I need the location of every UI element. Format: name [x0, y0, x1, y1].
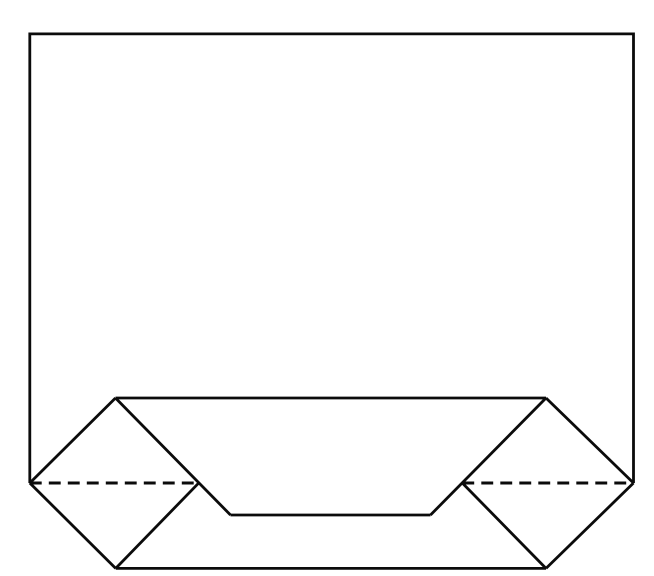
under-layer bottom edge [231, 514, 431, 517]
paper sheet outline (left, top, right edges) [30, 34, 634, 483]
right flap upper-right edge [546, 398, 634, 483]
bottom folded edge [116, 567, 546, 570]
right flap crease from top vertex to under-layer corner [431, 398, 547, 515]
right dashed fold line [462, 482, 632, 485]
top folded edge [116, 397, 547, 400]
right flap lower-left edge [462, 483, 546, 568]
left flap crease from top vertex to under-layer corner [116, 398, 231, 515]
left flap lower-left edge [30, 483, 116, 568]
left dashed fold line [30, 482, 199, 485]
left flap lower-right edge [116, 483, 199, 569]
left flap upper-left edge [30, 398, 116, 483]
right flap lower-right edge [546, 483, 634, 568]
